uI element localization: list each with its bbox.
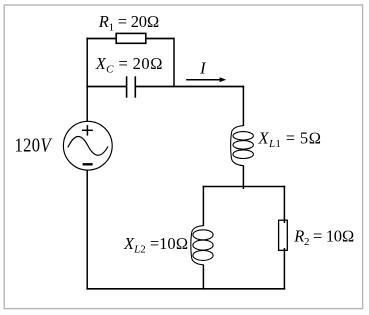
AC source 120V bbox=[63, 121, 112, 170]
wire: right parallel branch bottom (R2 to bottom wire) bbox=[283, 248, 285, 290]
minus terminal mark bbox=[83, 163, 93, 165]
wire: right parallel branch top (to R2) bbox=[283, 186, 285, 223]
wire: bottom horizontal return bbox=[86, 288, 285, 290]
wire: capacitor branch left segment bbox=[86, 86, 126, 88]
wire: right vertical of R1/XC loop bbox=[173, 38, 175, 87]
svg-text:XC = 20Ω: XC = 20Ω bbox=[95, 54, 163, 76]
svg-text:I: I bbox=[199, 59, 207, 78]
sine wave bbox=[68, 136, 108, 155]
wire: from XL1 bottom to junction on parallel-section top wire bbox=[242, 165, 244, 189]
capacitor XC plate right bbox=[134, 76, 136, 97]
svg-text:XL1 = 5Ω: XL1 = 5Ω bbox=[258, 128, 322, 150]
wire: left parallel branch bottom (XL2 to bottom wire) bbox=[202, 265, 204, 290]
wire: right vertical down to inductor XL1 bbox=[242, 86, 244, 126]
resistor R2 bbox=[279, 220, 288, 250]
wire: top horizontal (R1 branch) bbox=[86, 38, 174, 40]
current arrow I bbox=[186, 77, 226, 82]
inductor XL2 bbox=[191, 226, 213, 265]
wire: left parallel branch top (to XL2) bbox=[202, 186, 204, 226]
svg-text:XL2 =10Ω: XL2 =10Ω bbox=[123, 234, 188, 256]
wire: left vertical from source bottom down to bottom-left corner bbox=[86, 170, 88, 289]
inductor XL1 bbox=[231, 126, 254, 166]
plus terminal mark bbox=[82, 129, 93, 131]
resistor R1 bbox=[116, 33, 146, 43]
capacitor XC plate left bbox=[126, 76, 128, 97]
wire: left vertical from top-left corner down to source top bbox=[86, 38, 88, 122]
svg-text:120V: 120V bbox=[15, 134, 53, 156]
svg-text:R1 = 20Ω: R1 = 20Ω bbox=[98, 12, 159, 34]
svg-text:R2 = 10Ω: R2 = 10Ω bbox=[293, 227, 354, 249]
wire: parallel-section top horizontal bbox=[203, 186, 286, 188]
wire: capacitor branch right segment to top-right corner bbox=[135, 86, 244, 88]
